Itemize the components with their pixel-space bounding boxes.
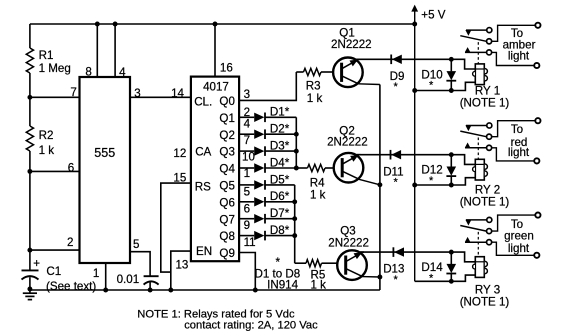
svg-text:*: * [394, 177, 399, 189]
svg-text:D1*: D1* [270, 106, 290, 119]
svg-text:*: * [394, 274, 399, 286]
svg-text:Q5: Q5 [219, 180, 234, 193]
svg-text:6: 6 [244, 203, 250, 216]
svg-text:4: 4 [119, 66, 126, 79]
svg-text:R1: R1 [39, 49, 54, 62]
svg-text:2: 2 [67, 236, 73, 249]
svg-text:5: 5 [133, 238, 139, 251]
svg-text:1: 1 [244, 167, 250, 180]
svg-text:2N2222: 2N2222 [331, 38, 372, 51]
svg-text:(NOTE 1): (NOTE 1) [460, 96, 510, 109]
svg-text:1: 1 [93, 267, 99, 280]
svg-text:light: light [508, 146, 530, 159]
svg-text:CL.: CL. [194, 95, 212, 108]
svg-text:D7*: D7* [270, 207, 290, 220]
svg-text:contact rating: 2A, 120 Vac: contact rating: 2A, 120 Vac [184, 319, 318, 331]
svg-text:Q8: Q8 [219, 230, 234, 243]
svg-text:7: 7 [70, 86, 76, 99]
svg-text:(See text): (See text) [46, 280, 96, 293]
svg-text:CA: CA [195, 146, 211, 159]
svg-text:To: To [511, 123, 523, 136]
svg-text:light: light [508, 49, 530, 62]
svg-text:8: 8 [85, 65, 91, 78]
svg-text:2N2222: 2N2222 [328, 237, 369, 250]
svg-text:13: 13 [175, 259, 188, 272]
svg-text:1 k: 1 k [39, 144, 55, 157]
svg-text:Q3: Q3 [340, 225, 355, 238]
svg-text:green: green [504, 230, 534, 243]
svg-text:*: * [429, 80, 434, 92]
svg-text:*: * [276, 256, 281, 269]
svg-text:R2: R2 [39, 129, 54, 142]
svg-text:1 k: 1 k [307, 92, 323, 105]
svg-text:11: 11 [244, 236, 256, 249]
svg-text:2N2222: 2N2222 [327, 136, 368, 149]
svg-text:Q3: Q3 [219, 146, 234, 159]
svg-text:3: 3 [244, 88, 250, 101]
svg-text:4: 4 [244, 117, 251, 130]
svg-text:D8*: D8* [270, 224, 290, 237]
svg-text:555: 555 [94, 146, 115, 160]
svg-text:D4*: D4* [270, 156, 290, 169]
svg-text:Q7: Q7 [219, 213, 234, 226]
svg-text:R4: R4 [310, 176, 325, 189]
svg-text:Q2: Q2 [219, 129, 234, 142]
svg-text:D3*: D3* [270, 140, 290, 153]
svg-text:D5*: D5* [270, 173, 290, 186]
svg-text:Q6: Q6 [219, 196, 234, 209]
svg-text:16: 16 [220, 61, 233, 74]
svg-text:Q4: Q4 [219, 163, 235, 176]
svg-text:C1: C1 [46, 265, 61, 278]
svg-text:14: 14 [171, 87, 184, 100]
svg-text:5: 5 [244, 186, 250, 199]
svg-text:*: * [429, 175, 434, 187]
svg-text:Q0: Q0 [219, 95, 234, 108]
svg-text:10: 10 [242, 151, 255, 164]
svg-text:*: * [394, 81, 399, 93]
svg-text:IN914: IN914 [267, 279, 298, 292]
svg-text:(NOTE 1): (NOTE 1) [460, 295, 510, 308]
svg-text:4017: 4017 [203, 81, 229, 94]
svg-text:R3: R3 [306, 79, 321, 92]
svg-text:+: + [33, 257, 40, 270]
svg-text:12: 12 [173, 147, 186, 160]
svg-text:6: 6 [68, 162, 74, 175]
svg-text:1 Meg: 1 Meg [39, 62, 71, 75]
svg-text:D6*: D6* [270, 190, 290, 203]
svg-text:Q9: Q9 [219, 247, 234, 260]
svg-text:1 k: 1 k [311, 279, 327, 292]
svg-text:7: 7 [244, 134, 250, 147]
svg-text:Q1: Q1 [219, 112, 234, 125]
svg-text:3: 3 [134, 87, 140, 100]
svg-text:*: * [429, 273, 434, 285]
svg-text:RS: RS [195, 180, 211, 193]
svg-text:+5 V: +5 V [421, 9, 445, 22]
svg-text:EN: EN [196, 245, 212, 258]
svg-text:1 k: 1 k [310, 189, 326, 202]
svg-text:9: 9 [244, 219, 250, 232]
svg-text:light: light [508, 242, 530, 255]
svg-text:D2*: D2* [270, 123, 290, 136]
svg-text:0.01: 0.01 [117, 273, 140, 286]
svg-text:(NOTE 1): (NOTE 1) [460, 195, 510, 208]
